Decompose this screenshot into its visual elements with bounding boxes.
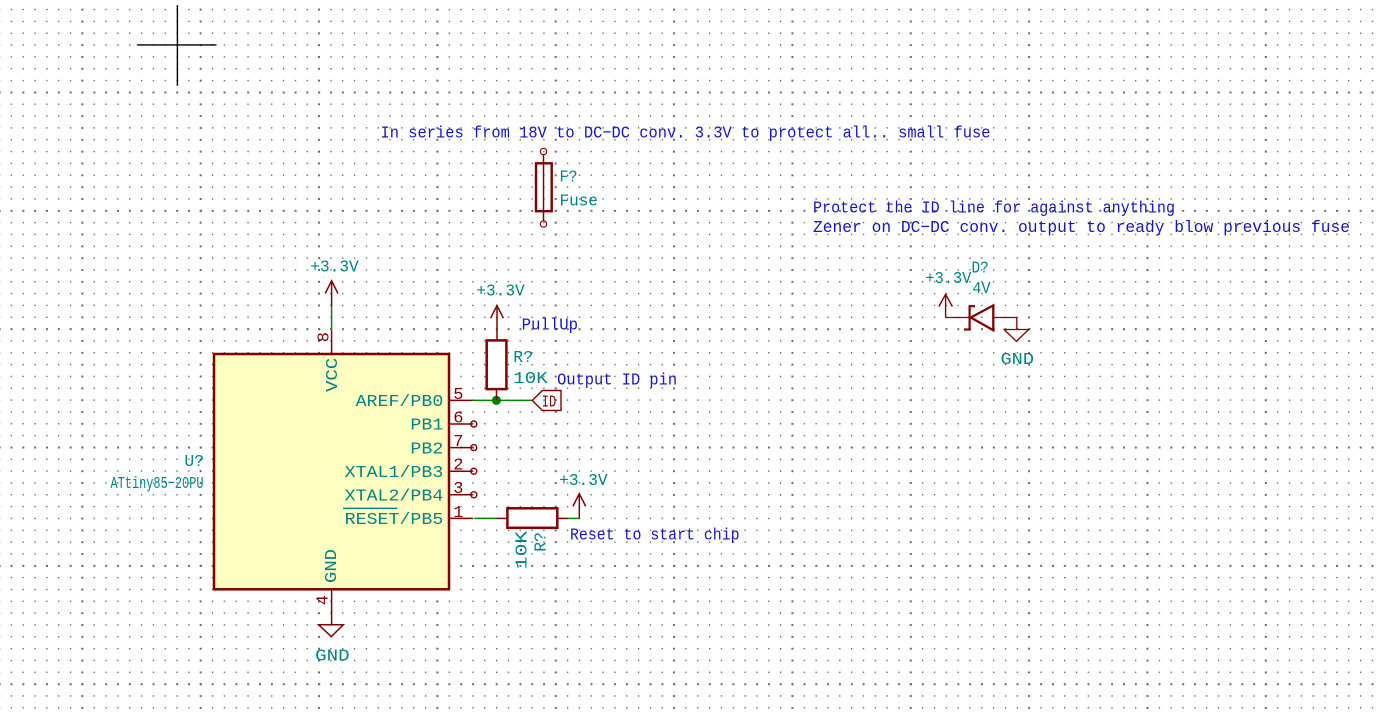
svg-text:RESET/PB5: RESET/PB5: [345, 511, 444, 530]
power +3.3V (VCC): [325, 281, 338, 306]
pin 8 VCC: [331, 330, 333, 354]
svg-text:R?: R?: [533, 532, 552, 552]
svg-text:AREF/PB0: AREF/PB0: [356, 393, 444, 412]
svg-text:2: 2: [453, 457, 463, 476]
svg-text:Protect the ID line for agains: Protect the ID line for against anything: [813, 199, 1175, 218]
svg-text:XTAL1/PB3: XTAL1/PB3: [345, 464, 444, 483]
crosshair origin marker: [137, 5, 217, 86]
hierarchical label ID: [532, 391, 561, 411]
power +3.3V (pullup): [491, 306, 504, 341]
pin 4 GND: [331, 589, 333, 625]
svg-text:PB1: PB1: [410, 417, 443, 436]
pin 6 PB1: [449, 423, 473, 425]
svg-text:Zener on DC−DC conv. output to: Zener on DC−DC conv. output to ready blo…: [813, 219, 1350, 238]
svg-text:+3.3V: +3.3V: [925, 270, 972, 289]
svg-text:PullUp: PullUp: [522, 317, 578, 336]
wire reset right: [568, 517, 580, 519]
svg-text:VCC: VCC: [324, 358, 343, 392]
svg-text:6: 6: [453, 409, 463, 428]
svg-text:10K: 10K: [514, 530, 533, 569]
pin 5 AREF/PB0: [449, 399, 473, 401]
pin 3 XTAL2/PB4: [449, 494, 473, 496]
svg-text:3: 3: [453, 480, 463, 499]
svg-text:PB2: PB2: [410, 440, 443, 459]
wire reset left: [474, 517, 497, 519]
pin 1 RESET/PB5: [449, 517, 473, 519]
svg-text:ATtiny85−20PU: ATtiny85−20PU: [111, 475, 204, 494]
zener diode D?: [946, 305, 1017, 330]
wire vcc: [331, 306, 333, 330]
svg-text:4: 4: [314, 595, 333, 605]
svg-text:Reset to start chip: Reset to start chip: [570, 527, 740, 546]
svg-text:4V: 4V: [972, 280, 991, 299]
svg-text:+3.3V: +3.3V: [310, 258, 359, 277]
wire pin5 to ID: [473, 399, 532, 401]
ground GND (under IC): [319, 625, 344, 637]
svg-text:GND: GND: [315, 648, 350, 667]
svg-text:D?: D?: [972, 260, 989, 279]
fuse F?: [536, 148, 552, 227]
svg-text:8: 8: [315, 332, 334, 342]
power +3.3V (zener): [939, 294, 953, 317]
svg-text:5: 5: [453, 386, 463, 405]
svg-text:In series from 18V to DC−DC co: In series from 18V to DC−DC conv. 3.3V t…: [381, 125, 991, 144]
resistor R? reset: [497, 517, 507, 519]
svg-text:+3.3V: +3.3V: [476, 283, 525, 302]
svg-text:F?: F?: [560, 169, 578, 188]
svg-text:GND: GND: [1001, 351, 1035, 370]
svg-text:Output ID pin: Output ID pin: [557, 372, 677, 391]
resistor R? pullup: [487, 340, 507, 389]
svg-text:XTAL2/PB4: XTAL2/PB4: [345, 488, 444, 507]
pin 7 PB2: [449, 447, 473, 449]
svg-text:Fuse: Fuse: [560, 193, 598, 212]
ground GND (zener): [1016, 318, 1018, 330]
svg-text:R?: R?: [513, 349, 533, 368]
svg-text:GND: GND: [323, 549, 342, 583]
junction: [492, 396, 501, 405]
svg-text:ID: ID: [542, 393, 557, 412]
pin 2 XTAL1/PB3: [449, 470, 473, 472]
IC U1 ATtiny85-20PU body: [214, 354, 449, 589]
power +3.3V (reset): [573, 494, 586, 519]
svg-text:1: 1: [453, 504, 463, 523]
svg-text:7: 7: [453, 433, 463, 452]
svg-text:10K: 10K: [513, 370, 548, 389]
svg-text:U?: U?: [184, 453, 204, 472]
svg-text:+3.3V: +3.3V: [559, 472, 608, 491]
